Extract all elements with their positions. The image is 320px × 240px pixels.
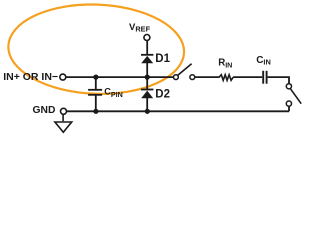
svg-text:RIN: RIN bbox=[218, 58, 232, 70]
diode D2 bbox=[141, 90, 153, 99]
junction node at diode column bbox=[145, 75, 150, 80]
wire R_IN to C_IN bbox=[233, 76, 262, 78]
wire ground rail bbox=[67, 110, 289, 112]
svg-text:IN+ OR IN−: IN+ OR IN− bbox=[3, 71, 58, 83]
svg-text:D2: D2 bbox=[155, 88, 170, 100]
switch S2 bottom contact bbox=[286, 101, 291, 106]
GND terminal bbox=[61, 108, 67, 114]
switch S1 right contact bbox=[190, 75, 195, 80]
wire S2 to ground rail bbox=[288, 106, 290, 111]
label GND bbox=[33, 105, 56, 116]
capacitor C_PIN wire from input rail bbox=[95, 77, 97, 89]
switch S2 lever bbox=[290, 89, 301, 104]
V_REF terminal bbox=[144, 35, 150, 41]
label IN+ OR IN- bbox=[3, 71, 58, 83]
input terminal bbox=[60, 74, 66, 80]
svg-text:CPIN: CPIN bbox=[104, 86, 123, 99]
diode D1 bbox=[141, 55, 153, 63]
svg-text:VREF: VREF bbox=[129, 22, 151, 34]
capacitor C_PIN wire to ground rail bbox=[95, 96, 97, 112]
junction node C_PIN at ground rail bbox=[93, 109, 98, 114]
svg-text:GND: GND bbox=[33, 105, 56, 116]
resistor R_IN bbox=[219, 75, 233, 81]
capacitor C_IN bbox=[263, 71, 266, 84]
label C_PIN bbox=[104, 86, 123, 99]
label D1 bbox=[155, 53, 170, 65]
wire D1 to input rail bbox=[146, 63, 148, 77]
capacitor C_PIN bbox=[88, 90, 102, 95]
label D2 bbox=[155, 88, 170, 100]
wire S1 to R_IN bbox=[195, 76, 219, 78]
wire input rail bbox=[66, 76, 173, 78]
wire V_REF to D1 bbox=[146, 41, 148, 55]
switch S2 top contact bbox=[286, 84, 291, 89]
junction node at C_PIN top bbox=[93, 75, 98, 80]
ground symbol bbox=[55, 114, 72, 132]
wire input rail to D2 bbox=[146, 77, 148, 89]
annotation highlight ellipse bbox=[7, 1, 186, 97]
label R_IN bbox=[218, 58, 232, 70]
junction node D2 at ground rail bbox=[145, 109, 150, 114]
wire D2 to ground rail bbox=[146, 98, 148, 111]
label V_REF bbox=[129, 22, 151, 34]
switch S1 left contact bbox=[174, 75, 179, 80]
svg-text:CIN: CIN bbox=[256, 55, 271, 67]
label C_IN bbox=[256, 55, 271, 67]
wire C_IN to corner and down to S2 bbox=[268, 77, 289, 83]
svg-text:D1: D1 bbox=[155, 53, 170, 65]
switch S1 lever bbox=[178, 64, 192, 76]
